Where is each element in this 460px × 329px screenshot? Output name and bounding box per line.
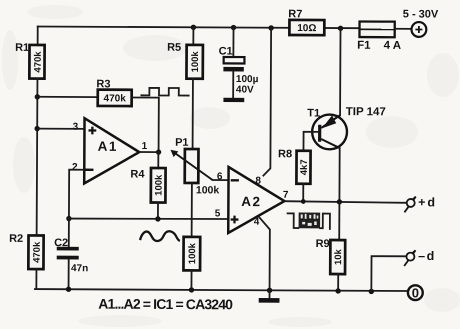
svg-text:+d: +d xyxy=(418,195,437,209)
potentiometer P1 xyxy=(170,149,213,183)
svg-text:R9: R9 xyxy=(316,238,330,250)
capacitor C2 xyxy=(57,218,79,289)
fuse F1 xyxy=(359,21,394,37)
node junction rail / A2 pin8 xyxy=(268,25,273,30)
svg-text:1: 1 xyxy=(142,141,148,152)
svg-text:5: 5 xyxy=(215,208,221,219)
svg-text:100µ: 100µ xyxy=(236,74,259,85)
svg-text:T1: T1 xyxy=(307,107,320,119)
wire node to R4 xyxy=(157,152,159,168)
wire top supply rail xyxy=(38,26,360,28)
wire R3 feed from bus xyxy=(37,96,97,98)
node junction C2 / rail xyxy=(66,287,71,292)
svg-text:A1...A2 = IC1 = CA3240: A1...A2 = IC1 = CA3240 xyxy=(98,296,233,313)
node junction rail / C1 xyxy=(231,25,236,30)
svg-text:A2: A2 xyxy=(241,194,261,209)
svg-text:2: 2 xyxy=(72,162,78,173)
ground bar C1 xyxy=(223,98,244,102)
wire A2 pin 4 to ground rail xyxy=(259,218,270,291)
moving-coil meter pictogram left bracket xyxy=(287,213,298,228)
svg-text:4: 4 xyxy=(254,217,260,228)
svg-text:TIP 147: TIP 147 xyxy=(346,106,386,118)
wire pin 3 input xyxy=(37,128,84,130)
svg-text:R8: R8 xyxy=(278,148,292,160)
svg-text:R2: R2 xyxy=(9,233,23,245)
wire rail to R5 xyxy=(192,27,194,44)
op-amp A1 xyxy=(84,118,139,183)
svg-text:100k: 100k xyxy=(154,174,165,196)
transistor T1 xyxy=(312,28,348,202)
resistor R4 xyxy=(151,168,166,203)
wire P1 to R6 xyxy=(191,183,193,237)
wire bottom ground rail xyxy=(35,289,408,291)
wire A2 output to +d xyxy=(284,201,406,203)
terminal +d xyxy=(404,197,415,213)
node junction pin2 / C2 / feedback xyxy=(66,216,71,221)
ground symbol main xyxy=(259,290,280,303)
wire R5 to P1 xyxy=(192,79,194,149)
svg-text:470k: 470k xyxy=(103,93,126,104)
svg-text:A1: A1 xyxy=(98,139,118,154)
node junction R4 / feedback xyxy=(155,216,160,221)
svg-text:3: 3 xyxy=(73,122,79,133)
wire wiper to A2 pin 6 xyxy=(213,179,228,181)
svg-text:R1: R1 xyxy=(15,42,29,54)
capacitor C1 xyxy=(223,27,244,97)
svg-text:0: 0 xyxy=(412,285,419,300)
wire pin 2 to feedback node xyxy=(69,170,84,219)
node junction pin4 / rail xyxy=(267,288,272,293)
svg-text:470k: 470k xyxy=(32,241,43,263)
svg-text:P1: P1 xyxy=(175,137,189,149)
svg-text:R3: R3 xyxy=(96,78,110,90)
resistor R8 xyxy=(296,151,310,184)
node junction rail / -d branch xyxy=(369,289,374,294)
wire A1 output stub xyxy=(139,151,158,153)
resistor R6 xyxy=(183,237,200,271)
moving-coil meter pictogram hatched body xyxy=(299,213,321,229)
resistor R7 xyxy=(289,20,324,35)
svg-text:R4: R4 xyxy=(130,168,145,180)
resistor R2 xyxy=(28,235,43,269)
node junction A1 output xyxy=(156,149,161,154)
svg-text:470k: 470k xyxy=(33,51,44,73)
node junction T1 collector / output xyxy=(337,199,342,204)
wire R4 bottom lead xyxy=(157,203,159,219)
wire output to R9 xyxy=(338,202,340,240)
wire left bus middle (R1 to R2) xyxy=(36,78,39,235)
wire R8 to A2 output xyxy=(302,184,304,202)
svg-text:F1: F1 xyxy=(357,40,371,52)
node junction left bus / R3 xyxy=(35,94,40,99)
wire R6 bottom lead xyxy=(190,270,192,289)
wire left bus lower (R2 to ground rail) xyxy=(35,269,37,289)
svg-text:47n: 47n xyxy=(71,263,88,274)
svg-text:–d: –d xyxy=(418,249,436,263)
svg-text:40V: 40V xyxy=(236,85,254,96)
svg-text:100k: 100k xyxy=(187,242,198,264)
svg-text:100k: 100k xyxy=(196,184,220,196)
svg-text:4k7: 4k7 xyxy=(299,159,310,175)
svg-text:10k: 10k xyxy=(333,248,344,265)
svg-text:100k: 100k xyxy=(190,51,201,73)
svg-text:C2: C2 xyxy=(54,237,68,249)
svg-text:6: 6 xyxy=(217,171,223,182)
moving-coil meter pictogram right bracket xyxy=(320,214,330,229)
wire R3 output to A1 output node xyxy=(132,97,159,152)
node junction rail / T1 emitter xyxy=(338,26,343,31)
wire T1 base to R8 xyxy=(303,132,318,151)
terminal 5-30V supply xyxy=(411,22,426,37)
svg-text:5 - 30V: 5 - 30V xyxy=(403,8,439,20)
svg-text:C1: C1 xyxy=(219,45,233,57)
resistor R3 xyxy=(98,90,132,106)
node junction R9 / rail xyxy=(335,288,340,293)
wire rail to A2 pin 8 xyxy=(263,28,271,176)
wire -d branch xyxy=(371,256,406,291)
waveform square wave symbol xyxy=(141,88,188,96)
svg-text:4 A: 4 A xyxy=(384,40,402,52)
svg-text:8: 8 xyxy=(255,176,261,187)
resistor R5 xyxy=(186,45,202,79)
svg-text:7: 7 xyxy=(283,190,289,201)
svg-text:R5: R5 xyxy=(167,42,181,54)
wire feedback line to A2 pin 5 xyxy=(69,218,228,219)
node junction rail / R5 xyxy=(191,25,196,30)
wire left bus upper (rail to R1) xyxy=(37,26,39,45)
wire fuse to supply terminal xyxy=(395,28,412,30)
waveform sine symbol xyxy=(140,231,180,241)
resistor R1 xyxy=(29,45,44,79)
resistor R9 xyxy=(330,240,345,274)
svg-text:R7: R7 xyxy=(288,8,302,20)
node junction left bus / pin3 xyxy=(34,126,39,131)
node junction R8 / output xyxy=(301,199,306,204)
terminal -d xyxy=(404,250,415,266)
wire R9 bottom lead xyxy=(337,274,339,291)
op-amp A2 xyxy=(228,167,284,233)
svg-text:10Ω: 10Ω xyxy=(297,23,316,34)
node junction R6 / rail xyxy=(189,287,194,292)
terminal 0 xyxy=(408,285,423,300)
